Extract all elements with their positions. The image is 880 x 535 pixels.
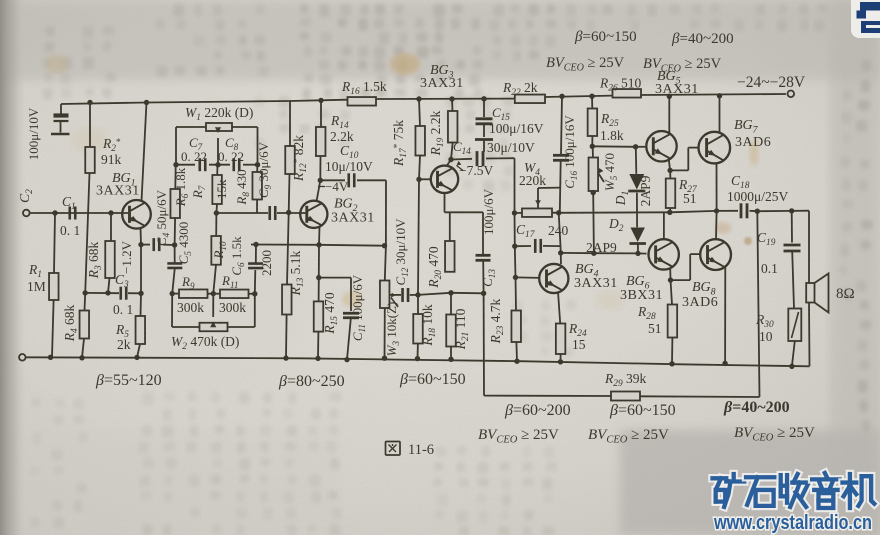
- label C19: [757, 230, 778, 276]
- capacitor C13 100u/6V: [476, 212, 491, 296]
- wire BG6 collector: [663, 212, 665, 239]
- watermark glyph 2: [781, 474, 809, 507]
- potentiometer W3 10k: [380, 246, 398, 361]
- potentiometer W4 220k: [515, 208, 562, 217]
- resistor R17 75k: [415, 96, 425, 179]
- wire BG8 emitter: [722, 267, 727, 367]
- label beta 55-120: [95, 372, 162, 389]
- watermark glyph 4: [843, 474, 875, 508]
- label BG4: [574, 262, 618, 291]
- transistor BG5 3AX31: [646, 131, 676, 161]
- resistor R18 10k: [413, 295, 423, 361]
- transistor BG2 3AX31: [300, 201, 327, 228]
- wire BG1 emitter: [140, 228, 143, 294]
- label C9: [256, 141, 273, 198]
- label R28: [637, 304, 662, 336]
- resistor R24 15: [556, 292, 566, 365]
- label supply voltage: [737, 74, 806, 91]
- label R20: [426, 246, 444, 289]
- label R17: [391, 120, 409, 167]
- potentiometer W2 470k: [172, 294, 255, 332]
- transistor BG8 3AD6: [700, 239, 731, 270]
- resistors R9 R11 300k: [170, 289, 258, 298]
- label R9: [177, 274, 204, 315]
- capacitor C10 10u/10V: [320, 173, 386, 245]
- label R3: [86, 241, 104, 279]
- label C12: [393, 218, 410, 286]
- wire NFB left: [484, 293, 611, 396]
- resistor R29 39k: [611, 392, 640, 401]
- wire BG6 emitter: [668, 268, 673, 283]
- label R24: [568, 321, 587, 352]
- resistor R30 10: [788, 309, 801, 369]
- label BG8: [682, 280, 718, 310]
- resistor R3 68k: [105, 213, 115, 296]
- wire BG2 base line with C9: [214, 206, 307, 220]
- corner watermark fragment: [851, 0, 880, 38]
- wire ground rail: [26, 357, 810, 366]
- resistor R26 510: [613, 89, 642, 98]
- wire lower drive line: [561, 251, 647, 256]
- resistor R23 4.7k: [511, 311, 521, 364]
- label C8: [218, 135, 244, 164]
- resistor R1 1M: [48, 213, 59, 360]
- label beta 60-200: [504, 402, 571, 419]
- capacitor C5 4300: [167, 245, 182, 294]
- capacitor C6 2200: [248, 245, 263, 294]
- transistor BG3 3AX31: [431, 166, 458, 193]
- label W3: [384, 302, 401, 357]
- wire BG2 emitter row: [251, 242, 387, 249]
- label C13 value: [481, 188, 496, 235]
- label C14: [453, 139, 535, 156]
- label C4: [154, 189, 171, 246]
- wire top supply rail: [61, 94, 786, 104]
- label W5: [602, 153, 619, 191]
- diode D1 2AP9: [628, 147, 645, 228]
- wire W5 bottom drop: [591, 193, 596, 256]
- label C13: [480, 269, 497, 287]
- label BVceo b3: [734, 425, 815, 444]
- label -4V: [318, 179, 349, 194]
- wire box left edge upper: [173, 127, 178, 167]
- label R19: [428, 110, 446, 156]
- resistor R20 470: [445, 212, 455, 271]
- label beta top1: [574, 29, 637, 45]
- label R5: [115, 322, 131, 352]
- label C17: [516, 222, 569, 240]
- resistor R7: [212, 165, 222, 213]
- wire BG5 emitter: [667, 159, 672, 173]
- resistor R2 91k: [83, 100, 95, 296]
- capacitor C19 0.1: [784, 211, 801, 309]
- wire BG3 base: [416, 177, 431, 182]
- wire W2 wiper: [210, 294, 216, 328]
- resistor R10: [211, 213, 221, 294]
- speaker 8ohm: [806, 211, 828, 367]
- capacitor C12 30u/10V: [389, 288, 418, 302]
- resistor R28 51: [668, 280, 678, 366]
- capacitor C16 100u/16V: [553, 94, 569, 213]
- capacitor C1 0.1: [52, 207, 113, 220]
- label R23: [488, 298, 506, 344]
- label W4: [519, 160, 546, 188]
- label -1.2V: [119, 240, 134, 274]
- svg-text:www.crystalradio.cn: www.crystalradio.cn: [713, 511, 872, 534]
- wire BG2 collector: [317, 178, 323, 202]
- label 8 ohm: [836, 286, 855, 302]
- label C3: [113, 272, 133, 317]
- wire BG3 collector drop: [512, 158, 518, 310]
- wire BG3 emitter: [445, 193, 484, 212]
- capacitor C18 1000u/25V: [741, 203, 760, 218]
- resistor R25 1.8k: [588, 94, 598, 150]
- label C10: [325, 143, 373, 174]
- resistor R13 5.1k: [282, 213, 292, 361]
- wire BG4 base: [516, 276, 541, 279]
- capacitor C17 240: [515, 239, 561, 253]
- resistor R12 82k: [285, 101, 295, 213]
- label beta 60-150 low: [609, 402, 676, 419]
- label BG2: [331, 197, 375, 226]
- label R27: [678, 177, 698, 206]
- label C5: [176, 222, 193, 264]
- potentiometer W1 220k: [176, 123, 258, 131]
- resistor R16 1.5k: [348, 97, 377, 106]
- wire BG7 collector: [717, 93, 722, 133]
- label 2200: [259, 250, 274, 276]
- label D2 2AP9: [586, 240, 617, 255]
- input terminal: [23, 210, 30, 217]
- capacitor C2 100u/10V: [51, 104, 70, 134]
- label W2: [171, 334, 239, 352]
- resistor R6 1.8k: [170, 165, 180, 245]
- label BVceo t1: [546, 55, 625, 74]
- capacitor C4 50u/6V: [138, 238, 177, 251]
- label BVceo t2: [643, 56, 722, 75]
- label beta top2: [671, 31, 734, 47]
- wire bias row: [418, 290, 484, 295]
- label -7.5V: [457, 161, 494, 178]
- transistor BG7 3AD6: [699, 132, 731, 164]
- label R6: [173, 167, 190, 207]
- capacitor C3 0.1: [85, 287, 141, 300]
- label R21: [453, 308, 471, 350]
- label R13: [288, 250, 306, 296]
- label C18: [727, 173, 788, 204]
- wire NFB right: [640, 211, 760, 397]
- capacitor C15 100u/16V: [475, 96, 493, 152]
- label D1 2AP9: [638, 175, 653, 206]
- watermark glyph 1: [746, 477, 776, 506]
- label BG1: [96, 171, 140, 199]
- label R7: [190, 185, 207, 199]
- label R12: [291, 135, 309, 182]
- wire output node: [757, 208, 809, 213]
- label R25: [600, 111, 624, 143]
- label R26: [599, 76, 642, 94]
- wire W4 wiper: [535, 188, 560, 209]
- label R22: [502, 80, 538, 98]
- label C1: [60, 194, 80, 238]
- label R16: [341, 79, 387, 97]
- wire BG8 collector: [715, 211, 718, 240]
- label R7 value: [214, 179, 229, 199]
- wire input line to BG1 base: [30, 212, 130, 214]
- label C7: [181, 135, 207, 164]
- resistor R8 430: [252, 165, 262, 213]
- label R10: [211, 241, 228, 260]
- capacitor C14 30u/10V: [451, 151, 515, 166]
- label C15: [489, 105, 544, 136]
- watermark glyph 0: [713, 474, 745, 507]
- wire BG2 emitter: [318, 227, 321, 245]
- resistor R5 2k: [134, 291, 145, 361]
- label R18: [420, 304, 438, 347]
- label beta 40-200 low: [723, 399, 790, 416]
- label C11: [350, 274, 367, 341]
- label C2: [17, 189, 35, 203]
- potentiometer W5 470: [589, 146, 604, 195]
- wire W1 wiper: [215, 127, 221, 167]
- label R15: [322, 292, 340, 335]
- label W1: [185, 105, 253, 123]
- transistor BG6 3BX31: [649, 239, 679, 269]
- wire BG5 base line: [592, 144, 645, 149]
- diode D2 2AP9: [629, 228, 646, 254]
- wire BG5 collector: [667, 94, 672, 134]
- wire box right edge upper: [255, 127, 260, 167]
- resistor R22 2k: [515, 95, 545, 104]
- resistor R19 2.2k: [448, 96, 458, 162]
- label BVceo b1: [478, 427, 559, 446]
- label BG5: [655, 69, 699, 97]
- resistor R27 51: [666, 170, 676, 215]
- wire BG8 base: [671, 254, 701, 280]
- watermark glyph 3: [812, 473, 840, 508]
- label beta 80-250: [278, 373, 345, 390]
- wire BG7 emitter to output: [714, 163, 719, 214]
- wire BG7 base: [670, 148, 699, 171]
- wire BG4 collector: [558, 213, 563, 264]
- label R29: [604, 371, 647, 389]
- wire output mid line: [559, 211, 738, 213]
- label R11: [219, 273, 246, 315]
- resistor R15 470: [314, 245, 324, 361]
- wire BG3 collector: [447, 160, 452, 167]
- label R2: [101, 136, 122, 167]
- label C6 1.5k: [229, 236, 246, 276]
- capacitors C7 C8 row: [176, 158, 258, 171]
- supply terminal -24V: [788, 91, 795, 98]
- transistor BG1 3AX31: [122, 200, 151, 229]
- resistor R21 110: [446, 293, 456, 362]
- label R8: [234, 169, 251, 205]
- label R14: [330, 113, 354, 144]
- label D2: [608, 216, 624, 234]
- label BG6: [620, 274, 663, 303]
- label beta 60-150: [399, 371, 466, 388]
- label R4: [62, 304, 80, 342]
- ground terminal: [19, 354, 26, 361]
- resistor R4 68k: [79, 293, 89, 361]
- label C16: [562, 115, 579, 189]
- label C2 value: [26, 107, 41, 160]
- caption fig 11-6: [386, 442, 435, 459]
- capacitor C11 100u/6V: [319, 278, 359, 363]
- resistor R14 2.2k: [316, 98, 326, 181]
- label R30: [755, 312, 774, 344]
- label R1: [27, 262, 46, 294]
- label BG7: [734, 118, 771, 150]
- label D1: [613, 191, 631, 206]
- transistor BG4 3AX31: [539, 264, 568, 293]
- label BVceo b2: [588, 427, 669, 446]
- wire BG1 collector: [142, 100, 150, 201]
- wire R17 bottom to bias line: [415, 179, 420, 297]
- label BG3: [420, 63, 464, 91]
